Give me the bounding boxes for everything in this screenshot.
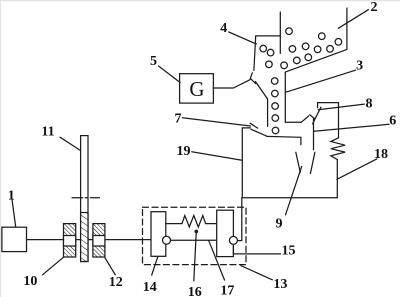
svg-text:17: 17 xyxy=(220,284,234,297)
leader 5 xyxy=(159,66,181,82)
ball t3 xyxy=(272,103,279,110)
svg-text:16: 16 xyxy=(188,285,202,297)
ball b1 xyxy=(286,28,293,35)
leader 6 xyxy=(314,124,389,131)
ball t5 xyxy=(272,127,279,134)
leader 11 xyxy=(60,137,81,150)
ball b5 xyxy=(267,49,274,56)
leader 17 xyxy=(209,241,225,280)
ball b12 xyxy=(294,57,301,64)
svg-text:11: 11 xyxy=(41,125,54,140)
chamber right wall 18 xyxy=(336,160,338,198)
leader 13 xyxy=(241,266,272,280)
leader 4 xyxy=(229,32,257,44)
svg-text:12: 12 xyxy=(109,275,123,290)
svg-text:19: 19 xyxy=(177,144,191,159)
ball b10 xyxy=(266,61,273,68)
leader 8 xyxy=(318,104,364,110)
motor box 1 xyxy=(2,227,27,251)
damper left pivot xyxy=(163,236,171,244)
spring 6 upper stem xyxy=(338,103,340,138)
shaft wire xyxy=(27,239,151,241)
leader 7 xyxy=(182,118,250,126)
leader 3 xyxy=(286,70,356,92)
hopper inner baffle xyxy=(279,12,281,53)
svg-text:7: 7 xyxy=(175,111,182,126)
chamber bottom xyxy=(242,197,337,199)
damper right body 15 xyxy=(217,210,234,256)
ball b7 xyxy=(302,43,309,50)
leader 2 xyxy=(338,10,368,29)
chamber mouth xyxy=(267,136,301,144)
svg-text:1: 1 xyxy=(8,188,15,203)
svg-text:8: 8 xyxy=(366,97,373,112)
chamber left wall xyxy=(241,128,243,198)
gate flap xyxy=(251,79,256,84)
ball t4 xyxy=(272,115,279,122)
svg-text:6: 6 xyxy=(389,114,396,129)
ball b2 xyxy=(319,33,326,40)
svg-text:14: 14 xyxy=(143,280,157,295)
chamber drop link xyxy=(238,198,242,241)
ball b11 xyxy=(281,62,288,69)
valve throat right side xyxy=(310,115,315,119)
ledge upper piece xyxy=(250,123,257,128)
leader 19 xyxy=(192,152,242,161)
svg-text:18: 18 xyxy=(374,147,388,162)
svg-text:13: 13 xyxy=(273,277,287,292)
outlet line 15 xyxy=(233,244,280,254)
ball b4 xyxy=(260,45,267,52)
valve 8 flap xyxy=(313,107,321,124)
hopper right wall xyxy=(346,8,348,49)
hopper incline bottom 3 xyxy=(285,49,347,72)
svg-text:2: 2 xyxy=(371,0,378,15)
leader 1 xyxy=(12,200,16,228)
leader 14 xyxy=(152,257,158,275)
hub left band xyxy=(64,236,76,247)
leader 16 xyxy=(195,230,197,232)
svg-text:10: 10 xyxy=(23,274,37,289)
hopper shelf xyxy=(256,35,281,37)
ball b8 xyxy=(314,46,321,53)
svg-text:4: 4 xyxy=(220,21,227,36)
flap 9a xyxy=(296,152,301,172)
svg-text:15: 15 xyxy=(282,244,296,259)
ball t1 xyxy=(271,78,278,85)
ball t2 xyxy=(272,90,279,97)
disc 11 xyxy=(81,136,88,262)
damper dashed box 13 xyxy=(143,207,247,264)
svg-text:G: G xyxy=(189,77,204,101)
flap 9b xyxy=(310,152,315,173)
gate 7 plate xyxy=(251,129,267,136)
hub right band xyxy=(93,236,105,247)
chamber ledge xyxy=(242,127,250,129)
channel left wall upper xyxy=(255,82,267,127)
valve 8 seat xyxy=(318,103,339,108)
leader 12 xyxy=(105,257,116,275)
disc hatch xyxy=(81,213,88,262)
svg-text:5: 5 xyxy=(150,54,157,69)
G link to gate xyxy=(213,73,252,88)
hopper left wall xyxy=(254,36,256,71)
spring 16 xyxy=(166,216,217,228)
spring 6 xyxy=(331,138,345,160)
generator G box U5 xyxy=(180,74,214,103)
ball b3 xyxy=(335,39,342,46)
channel right wall xyxy=(285,72,308,122)
ball b6 xyxy=(289,46,296,53)
ball b9 xyxy=(327,46,334,53)
damper right pivot xyxy=(229,236,237,244)
leader 18 xyxy=(337,159,377,179)
leader 9 xyxy=(286,167,302,215)
svg-text:3: 3 xyxy=(356,59,363,74)
centerline dash-dot xyxy=(72,197,99,199)
damper left body 14 xyxy=(151,212,166,257)
hub left block 10 xyxy=(64,224,76,257)
rod 17 xyxy=(171,239,230,241)
hub right block 12 xyxy=(93,224,105,257)
drop passage right wall xyxy=(313,119,315,150)
svg-text:9: 9 xyxy=(276,217,283,232)
leader 10 xyxy=(43,257,64,275)
ball b13 xyxy=(305,54,312,61)
